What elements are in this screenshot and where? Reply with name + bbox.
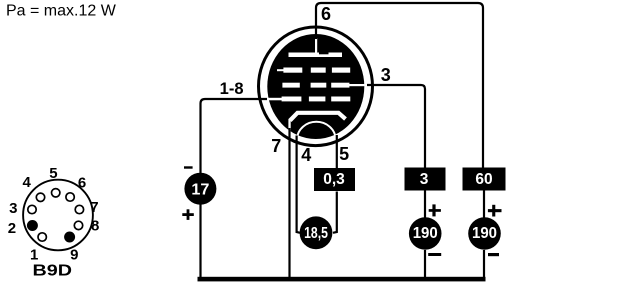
svg-text:7: 7 (90, 199, 98, 216)
svg-text:7: 7 (271, 136, 281, 156)
svg-text:1: 1 (30, 246, 38, 263)
svg-text:17: 17 (191, 181, 209, 198)
svg-text:4: 4 (23, 174, 32, 191)
svg-text:8: 8 (91, 217, 99, 234)
svg-text:9: 9 (70, 246, 78, 263)
svg-text:B9D: B9D (33, 263, 73, 280)
svg-text:4: 4 (301, 145, 311, 165)
svg-text:190: 190 (472, 225, 497, 242)
svg-text:3: 3 (381, 65, 391, 85)
svg-text:60: 60 (475, 171, 492, 188)
svg-text:6: 6 (78, 175, 86, 192)
svg-text:0,3: 0,3 (323, 171, 345, 188)
svg-text:1-8: 1-8 (220, 80, 244, 98)
svg-text:6: 6 (321, 4, 331, 24)
svg-text:18,5: 18,5 (304, 225, 328, 242)
svg-text:190: 190 (413, 225, 438, 242)
svg-text:Pa = max.12 W: Pa = max.12 W (6, 2, 117, 19)
svg-text:3: 3 (9, 200, 17, 217)
svg-text:2: 2 (8, 220, 16, 237)
svg-text:5: 5 (339, 144, 349, 164)
svg-text:5: 5 (49, 165, 57, 182)
svg-text:3: 3 (420, 171, 429, 188)
